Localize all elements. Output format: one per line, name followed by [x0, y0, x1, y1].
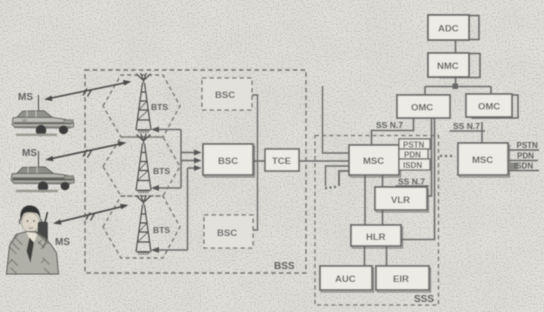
- wire HLR to EIR: [386, 246, 388, 266]
- box HLR: [351, 225, 403, 248]
- car MS1: [12, 95, 73, 136]
- svg-text:ISDN: ISDN: [514, 162, 533, 171]
- hexagon cell 1: [103, 75, 180, 137]
- wire BSC to TCE: [253, 160, 265, 162]
- hexagon cell 2: [103, 137, 180, 196]
- hexagon cell 3: [103, 196, 180, 258]
- svg-text:OMC: OMC: [411, 103, 433, 114]
- wire arrow into BSC 3: [188, 167, 198, 169]
- svg-text:SS N.7: SS N.7: [398, 177, 425, 187]
- box EIR: [376, 266, 431, 292]
- ellipsis dots left of MSC-R: [440, 155, 452, 157]
- BSS dashed boundary: [85, 70, 306, 273]
- wire OMC-R to MSC-R via SS N.7: [450, 122, 486, 143]
- box MSC right: [458, 143, 510, 177]
- svg-text:PDN: PDN: [404, 151, 421, 160]
- wire arrow to BTS3 base: [153, 249, 188, 251]
- box AUC: [320, 266, 374, 292]
- BTS tower 3: [136, 195, 151, 254]
- svg-text:PSTN: PSTN: [403, 141, 425, 150]
- box OMC left: [397, 95, 450, 118]
- svg-text:BTS: BTS: [153, 225, 170, 235]
- box OMC right: [466, 94, 518, 118]
- wire BSCdash-bottom connector: [253, 161, 258, 230]
- wire riser into MSC-L upper: [323, 86, 350, 153]
- svg-text:TCE: TCE: [272, 156, 291, 167]
- junction dot: [453, 84, 459, 90]
- MS arrow 1: [44, 80, 132, 101]
- svg-text:SSS: SSS: [414, 294, 434, 305]
- box BSC dashed top: [202, 78, 252, 110]
- svg-text:OMC: OMC: [478, 102, 500, 113]
- MS arrow 2: [45, 141, 127, 161]
- wire arrow to BTS1 base: [153, 129, 181, 131]
- box MSC left: [349, 145, 401, 177]
- svg-text:MSC: MSC: [472, 155, 493, 166]
- wire BSCdash-top connector: [252, 95, 258, 161]
- BTS tower 1: [136, 73, 151, 132]
- box ISDN left: [399, 159, 430, 170]
- wire arrow to BTS2 base: [153, 187, 181, 189]
- svg-text:MS: MS: [22, 148, 37, 159]
- BTS tower 2: [136, 134, 151, 193]
- svg-text:MS: MS: [18, 92, 33, 103]
- svg-text:ISDN: ISDN: [403, 161, 422, 170]
- wire drop to OMC left: [424, 87, 426, 96]
- box NMC: [428, 53, 480, 78]
- svg-text:MS: MS: [55, 237, 70, 248]
- svg-text:PSTN: PSTN: [517, 141, 539, 150]
- wire NMC-junction: [455, 77, 457, 87]
- svg-text:BTS: BTS: [153, 166, 170, 176]
- wire MSC-L to VLR: [382, 175, 384, 187]
- wire BTS bus 1: [180, 130, 182, 189]
- svg-text:MSC: MSC: [363, 156, 384, 167]
- wire OMC-L to VLR: [427, 118, 432, 196]
- svg-text:SS N.7: SS N.7: [453, 121, 480, 131]
- label PDN right: [509, 152, 538, 161]
- ellipsis dots below MSC-L: [325, 186, 336, 189]
- wire MSC-L stub lower1: [326, 166, 350, 186]
- box BSC dashed bottom: [204, 215, 253, 248]
- box BSC: [203, 144, 255, 177]
- svg-text:PDN: PDN: [517, 152, 534, 161]
- svg-text:SS N.7: SS N.7: [376, 120, 403, 130]
- label SS N.7 mid VLR: [396, 177, 430, 187]
- SSS dashed boundary: [315, 136, 439, 306]
- wire VLR to HLR: [382, 210, 384, 225]
- box TCE: [265, 149, 299, 171]
- wire ADC-NMC: [455, 40, 457, 53]
- wire BTS bus 2: [187, 168, 189, 250]
- svg-text:BSC: BSC: [217, 228, 237, 239]
- box PDN left: [399, 149, 428, 160]
- wire OMC-L to HLR: [401, 118, 435, 240]
- svg-text:BSC: BSC: [215, 90, 235, 101]
- MS arrow 3: [53, 204, 129, 225]
- label PSTN right: [509, 141, 539, 150]
- car MS2: [11, 151, 74, 192]
- svg-text:AUC: AUC: [335, 274, 356, 285]
- svg-text:EIR: EIR: [393, 274, 409, 285]
- box VLR: [375, 187, 429, 212]
- box PSTN left: [399, 139, 430, 150]
- box ADC: [428, 15, 479, 40]
- svg-text:BSC: BSC: [218, 156, 238, 167]
- wire TCE to MSC-L: [299, 160, 349, 162]
- label ISDN right: [509, 162, 539, 171]
- wire arrow into BSC 1: [181, 152, 197, 154]
- svg-text:VLR: VLR: [391, 195, 410, 206]
- svg-text:ADC: ADC: [438, 24, 459, 35]
- wire MSC-L to HLR: [364, 175, 366, 225]
- wire MSC-L stub lower2: [339, 171, 349, 186]
- wire arrow into BSC 2: [181, 160, 197, 162]
- wire drop to OMC right: [490, 87, 492, 95]
- wire splitter OMC: [425, 86, 491, 88]
- svg-text:BSS: BSS: [274, 261, 295, 272]
- svg-text:BTS: BTS: [151, 102, 168, 112]
- svg-text:HLR: HLR: [366, 232, 386, 243]
- svg-text:NMC: NMC: [437, 61, 459, 72]
- wire HLR to AUC: [364, 246, 366, 266]
- person MS3: [7, 206, 59, 276]
- wire OMC-L to MSC-L via SS N.7: [372, 118, 414, 145]
